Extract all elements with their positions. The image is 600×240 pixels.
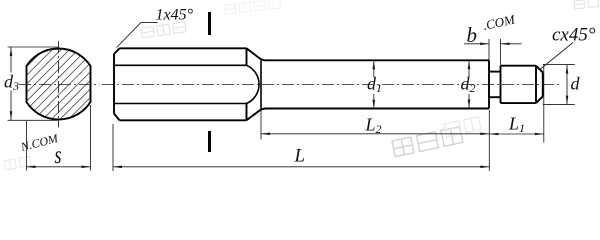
shank outline <box>265 60 489 108</box>
head left edge <box>500 66 502 103</box>
svg-text:L: L <box>294 146 306 167</box>
transition cone bottom <box>247 109 267 121</box>
dimension d2 <box>468 60 470 108</box>
svg-text:d2: d2 <box>461 74 476 96</box>
dimension b <box>464 39 522 65</box>
neck (groove) <box>489 72 501 98</box>
hex top edge <box>120 47 247 49</box>
dimension d1 <box>373 60 375 108</box>
hex flat line bottom <box>114 103 247 105</box>
dimension L1 <box>489 64 544 143</box>
svg-text:b: b <box>467 23 478 47</box>
cylinder start edge <box>260 60 262 108</box>
right end face edge <box>542 72 544 96</box>
svg-text:d3: d3 <box>4 72 19 94</box>
dimension d3 <box>8 47 60 120</box>
head top edge <box>501 65 537 67</box>
main centerline <box>102 84 560 86</box>
hex body outline <box>114 48 266 120</box>
centerline vertical (left view) <box>58 41 60 128</box>
chamfer top diagonal <box>536 66 543 73</box>
shank bottom edge <box>265 108 489 110</box>
chamfer circle line <box>535 66 537 103</box>
watermark chars bottom-left corner <box>4 156 31 169</box>
centerline horizontal (left view) <box>19 84 100 86</box>
left chamfer top <box>114 48 120 54</box>
svg-text:d1: d1 <box>367 74 382 96</box>
left end edge <box>113 54 115 114</box>
head (tip) <box>501 66 543 103</box>
hex flat line top <box>114 64 247 66</box>
shank top edge <box>265 59 489 61</box>
hex end vertical bottom <box>246 104 248 121</box>
neck bottom edge <box>489 96 501 98</box>
svg-text:s: s <box>55 142 62 169</box>
head bottom edge <box>501 102 537 104</box>
dimension L <box>113 124 489 171</box>
hex bottom edge <box>120 119 247 121</box>
svg-text:L2: L2 <box>365 115 382 137</box>
neck top edge <box>489 71 501 73</box>
watermark chars top-right corner <box>574 0 599 9</box>
dimension d <box>543 65 575 105</box>
shank end edge <box>488 60 490 108</box>
hex end vertical top <box>246 48 248 65</box>
label cx45 with leader <box>541 43 574 70</box>
dimension L2 <box>261 110 489 172</box>
transition arc <box>247 65 260 103</box>
transition cone top <box>247 48 267 60</box>
watermark chars top-left of hex <box>141 22 186 38</box>
svg-text:L1: L1 <box>508 114 525 136</box>
watermark faint chars above bottom-middle group <box>444 117 481 137</box>
svg-text:cx45°: cx45° <box>552 25 596 46</box>
left chamfer bottom <box>114 114 120 121</box>
svg-text:d: d <box>571 74 581 94</box>
watermark chars top-middle <box>224 0 281 14</box>
chamfer bottom diagonal <box>536 96 543 103</box>
label 1x45 with leader <box>117 22 158 47</box>
hatching <box>0 0 120 205</box>
watermark big chars bottom-middle <box>392 127 463 157</box>
section outline <box>27 48 91 119</box>
dimension s <box>27 105 91 171</box>
cutting plane tick top <box>208 12 211 35</box>
svg-text:.COM: .COM <box>482 11 518 33</box>
svg-text:1x45°: 1x45° <box>156 7 194 24</box>
cutting plane tick bottom <box>208 131 211 152</box>
